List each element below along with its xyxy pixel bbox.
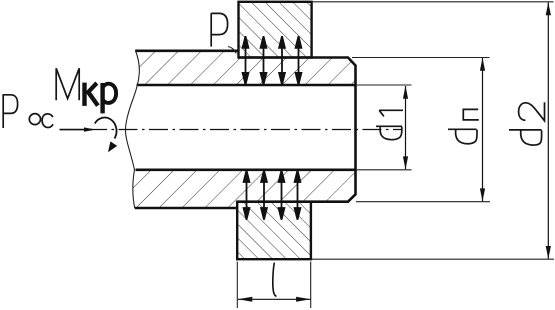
dimension l (238, 297, 311, 302)
shaft top wall hatch (135, 51, 355, 85)
bore top line (137, 84, 356, 87)
label l (273, 263, 277, 297)
extension lines (237, 2, 554, 308)
centerline (88, 129, 401, 131)
shaft outline (135, 51, 356, 208)
bore bottom line (136, 169, 356, 172)
label d2 (509, 102, 545, 145)
torque arc Mkp (95, 118, 117, 139)
hub top block (239, 2, 312, 58)
P leader (228, 47, 236, 54)
pressure arrows bottom (244, 170, 301, 219)
dimension d2 (546, 2, 551, 259)
label P pressure (211, 13, 227, 46)
pressure arrows top (243, 36, 302, 84)
label dn (448, 109, 479, 143)
label d1 (376, 110, 403, 139)
dimension dn (480, 58, 485, 202)
label Mkp (56, 68, 79, 100)
Poc arrow (60, 129, 93, 131)
label Poc (3, 94, 53, 128)
dimension d1 (403, 86, 408, 170)
hub bottom block (237, 202, 311, 260)
wavy break line (126, 50, 140, 208)
kp bold subscript (85, 83, 117, 114)
shaft bottom wall hatch (133, 170, 356, 208)
